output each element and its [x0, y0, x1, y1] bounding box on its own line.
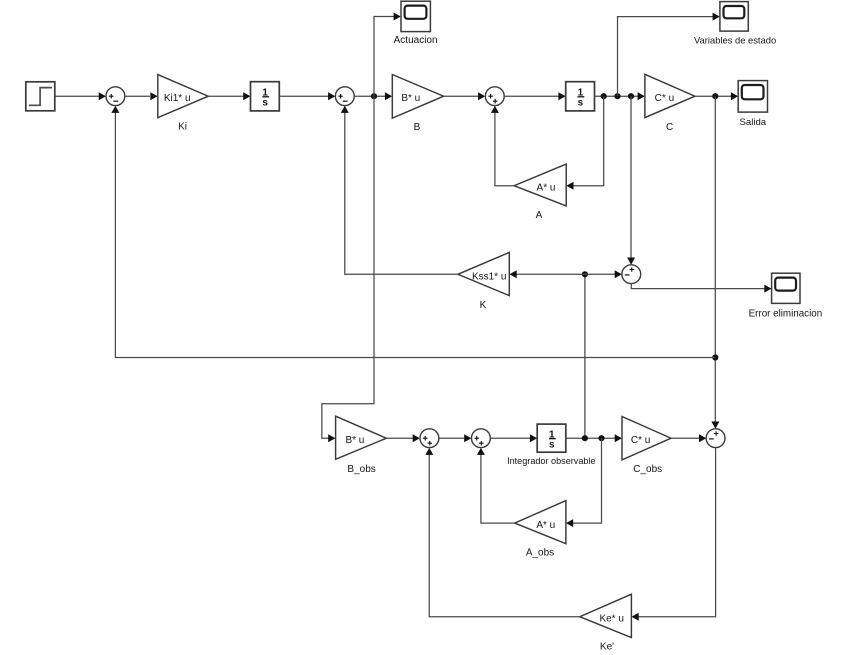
label Error eliminacion	[749, 308, 823, 319]
step source block	[26, 82, 55, 111]
junction x to A feedback	[601, 93, 607, 99]
wire 1/s to sum S2	[279, 92, 335, 100]
sum S4 error (x - xhat)	[622, 265, 641, 284]
wire C_obs to sum S7	[671, 434, 706, 442]
label B	[414, 122, 421, 133]
svg-text:B* u: B* u	[345, 435, 364, 446]
wire u up to Actuacion scope	[374, 13, 401, 97]
svg-text:s: s	[262, 98, 268, 109]
sum S2 (u = int - K xhat)	[335, 87, 354, 106]
label Variables de estado	[694, 34, 776, 45]
wire x down to gain A	[566, 96, 603, 190]
svg-text:Salida: Salida	[739, 117, 766, 128]
junction y node	[712, 93, 718, 99]
gain C (C* u)	[645, 74, 695, 117]
svg-text:Ki: Ki	[178, 121, 187, 132]
wire S4 to Error eliminacion scope	[631, 284, 771, 293]
svg-text:s: s	[578, 98, 584, 109]
gain K (Kss1* u)	[458, 252, 509, 295]
wire C to Salida scope	[695, 92, 738, 100]
wire S3 to integrator 2	[504, 92, 565, 100]
integrator block 1/s	[251, 82, 280, 111]
wire B_obs to sum S5	[386, 434, 420, 442]
label A	[536, 210, 543, 221]
svg-text:C: C	[666, 122, 673, 133]
svg-text:C* u: C* u	[631, 435, 650, 446]
wire junction to gain K input	[510, 270, 585, 278]
wire K to sum S2 bottom	[341, 106, 458, 275]
gain Ke' (Ke* u)	[580, 594, 632, 637]
svg-text:Kss1* u: Kss1* u	[472, 271, 506, 282]
junction u node	[371, 93, 377, 99]
junction y feedback node	[712, 354, 718, 360]
svg-text:Error eliminacion: Error eliminacion	[749, 308, 823, 319]
svg-text:Actuacion: Actuacion	[394, 35, 438, 46]
wire y down the right side to observer sum S7	[711, 96, 719, 429]
wire xhat down to gain A_obs	[566, 438, 602, 527]
wire step to sum S1	[55, 92, 106, 100]
wire Integrador to gain C_obs	[566, 434, 622, 442]
label Integrador observable	[507, 456, 595, 466]
label A_obs	[526, 548, 554, 559]
sum S6 observer	[472, 429, 491, 448]
svg-text:A* u: A* u	[536, 520, 555, 531]
wire xhat up to K row with junction	[584, 274, 586, 438]
integrator block Integrador observable	[537, 424, 566, 452]
label C_obs	[633, 464, 662, 475]
scope Actuacion	[401, 1, 430, 31]
svg-text:B* u: B* u	[401, 93, 420, 104]
wire S6 to Integrador observable	[490, 434, 537, 442]
gain A (A* u)	[514, 164, 566, 206]
wire A_obs to sum S6 bottom	[477, 448, 515, 523]
svg-text:B_obs: B_obs	[347, 464, 375, 475]
wire y feedback to sum S1 bottom	[111, 106, 715, 358]
wire S1 to gain Ki	[125, 92, 158, 100]
svg-text:A* u: A* u	[537, 182, 556, 193]
svg-text:A_obs: A_obs	[526, 548, 554, 559]
sum S1 (r - y)	[106, 87, 125, 106]
wire Ke to sum S5 bottom	[425, 448, 580, 617]
svg-text:Ke* u: Ke* u	[599, 614, 623, 625]
junction x to error sum	[628, 93, 634, 99]
wire u down to gain B_obs	[322, 96, 374, 442]
gain Ki (Ki1* u)	[158, 75, 208, 118]
svg-text:Variables de estado: Variables de estado	[694, 34, 776, 45]
wire S2 to gain B with junction u	[354, 92, 392, 100]
wire B to sum S3	[444, 92, 486, 100]
svg-text:Ke': Ke'	[600, 641, 614, 652]
label K	[480, 300, 487, 311]
wire S7 down to gain Ke	[632, 448, 716, 621]
sum S7 (y - yhat)	[706, 429, 725, 448]
gain C_obs (C* u)	[622, 417, 671, 460]
gain A_obs (A* u)	[515, 501, 566, 544]
scope Salida	[738, 81, 767, 113]
gain B (B* u)	[392, 75, 443, 119]
svg-text:K: K	[480, 300, 487, 311]
label Salida	[739, 117, 766, 128]
wire junction to error sum S4	[585, 270, 622, 278]
label Ki	[178, 121, 187, 132]
wire x down to error sum S4	[627, 96, 635, 265]
wire integrator2 to gain C	[595, 92, 645, 100]
sum S5 observer	[420, 429, 439, 448]
junction xhat to A_obs node	[598, 435, 604, 441]
junction x to Variables de estado	[614, 93, 620, 99]
label Ke'	[600, 641, 614, 652]
junction xhat node	[582, 435, 588, 441]
svg-text:Integrador observable: Integrador observable	[507, 456, 595, 466]
scope Error eliminacion	[772, 273, 800, 303]
label B_obs	[347, 464, 375, 475]
wire S5 to sum S6	[439, 434, 472, 442]
svg-text:Ki1* u: Ki1* u	[164, 93, 191, 104]
label Actuacion	[394, 35, 438, 46]
svg-text:s: s	[549, 440, 555, 451]
sum S3 (Bu + Ax)	[485, 87, 504, 106]
wire x up to Variables de estado scope	[618, 13, 720, 97]
svg-text:C_obs: C_obs	[633, 464, 662, 475]
wire Ki to integrator 1/s	[208, 92, 250, 100]
scope Variables de estado	[720, 2, 748, 32]
svg-text:C* u: C* u	[655, 93, 674, 104]
gain B_obs (B* u)	[336, 416, 387, 459]
svg-text:A: A	[536, 210, 543, 221]
integrator block 1/s plant	[566, 82, 595, 111]
junction xhat K node	[582, 271, 588, 277]
svg-text:B: B	[414, 122, 421, 133]
wire A to sum S3 bottom	[491, 106, 514, 186]
label C	[666, 122, 673, 133]
